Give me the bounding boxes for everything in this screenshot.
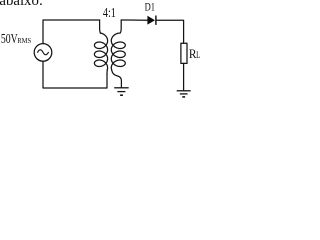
transformer T1 secondary winding	[120, 20, 121, 33]
svg-text:4:1: 4:1	[103, 5, 116, 20]
wire secondary top to diode D1 anode	[121, 19, 147, 21]
diode D1	[147, 16, 156, 25]
svg-text:RMS: RMS	[17, 37, 31, 45]
svg-text:50V: 50V	[1, 32, 18, 47]
AC source V1 (50V RMS)	[34, 44, 52, 62]
wire source top to primary (top rail)	[43, 20, 100, 44]
ground (secondary winding)	[114, 87, 129, 89]
transformer T1 primary winding	[100, 20, 101, 33]
resistor RL	[181, 43, 187, 63]
wire diode D1 cathode to resistor RL	[156, 20, 183, 43]
svg-text:L: L	[196, 50, 200, 60]
svg-text:abaixo:: abaixo:	[0, 0, 43, 9]
svg-text:D1: D1	[145, 2, 156, 14]
wire source bottom to primary (bottom rail)	[43, 61, 107, 88]
wire resistor RL to ground	[183, 63, 185, 90]
ground (load)	[177, 90, 191, 92]
AC source V1 sine symbol	[38, 50, 49, 55]
